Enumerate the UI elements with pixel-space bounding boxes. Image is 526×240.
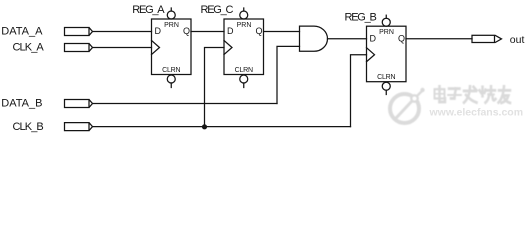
svg-text:Q: Q	[183, 26, 190, 36]
wire DATA_A to REG_A.D	[93, 31, 152, 33]
wire CLK_B horizontal run	[93, 126, 351, 128]
svg-text:Q: Q	[398, 33, 405, 43]
svg-text:PRN: PRN	[379, 29, 394, 36]
子	[449, 87, 460, 90]
wire CLK_A to REG_A.CLK	[93, 47, 152, 49]
watermark logo (elecfans circle trace)	[390, 88, 425, 123]
wire REG_A.Q to REG_C.D	[191, 31, 224, 33]
D flip-flop REG_A	[132, 4, 191, 87]
svg-text:out: out	[510, 34, 525, 46]
svg-text:CLK_A: CLK_A	[13, 42, 45, 54]
wire DATA_B riser to AND input 2	[277, 46, 300, 103]
AND gate	[300, 26, 328, 51]
input pin DATA_A	[1, 26, 92, 38]
input pin CLK_B	[13, 121, 93, 133]
svg-text:DATA_B: DATA_B	[1, 98, 42, 110]
wire CLK_B branch riser to REG_C.CLK	[205, 48, 225, 127]
junction dot on CLK_B net	[202, 124, 207, 129]
input pin DATA_B	[1, 98, 92, 110]
烧	[481, 87, 484, 96]
svg-text:REG_A: REG_A	[132, 4, 165, 16]
svg-text:CLRN: CLRN	[162, 67, 180, 74]
output pin out	[472, 34, 524, 46]
svg-text:D: D	[370, 33, 377, 43]
svg-text:REG_B: REG_B	[345, 11, 377, 23]
svg-text:PRN: PRN	[164, 22, 179, 29]
电	[435, 89, 445, 98]
svg-text:REG_C: REG_C	[201, 4, 234, 16]
input pin CLK_A	[13, 42, 93, 54]
D flip-flop REG_C	[201, 4, 264, 87]
D flip-flop REG_B	[345, 11, 407, 94]
友	[499, 89, 510, 92]
svg-text:CLK_B: CLK_B	[13, 121, 44, 133]
wire CLK_B riser to REG_B.CLK	[351, 55, 367, 127]
svg-text:D: D	[227, 26, 234, 36]
svg-text:PRN: PRN	[237, 22, 252, 29]
svg-text:D: D	[155, 26, 162, 36]
wire REG_C.Q to AND input 1	[264, 31, 300, 33]
svg-text:www.elecfans.com: www.elecfans.com	[429, 106, 524, 118]
watermark text 电子发烧友 (stroke approximation)	[435, 86, 511, 103]
wire DATA_B horizontal run	[93, 103, 278, 105]
svg-text:CLRN: CLRN	[235, 67, 253, 74]
发	[464, 90, 476, 93]
svg-text:Q: Q	[255, 26, 262, 36]
svg-text:DATA_A: DATA_A	[1, 26, 43, 38]
wire REG_B.Q to output pin	[406, 38, 472, 40]
svg-text:CLRN: CLRN	[377, 74, 395, 81]
wire AND output to REG_B.D	[328, 38, 367, 40]
